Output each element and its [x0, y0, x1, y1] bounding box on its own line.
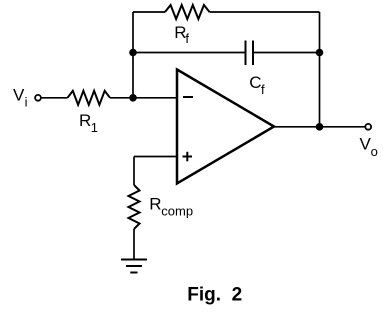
svg-text:i: i: [25, 94, 28, 109]
terminal Vi open circle: [35, 95, 41, 101]
wire Cf rail left segment: [133, 52, 246, 54]
node junction dot inverting input: [129, 94, 137, 102]
node junction dot left Cf: [129, 49, 137, 57]
svg-text:Fig. 2: Fig. 2: [187, 284, 242, 305]
resistor Rcomp: [129, 185, 140, 229]
wire top rail right segment: [210, 11, 320, 13]
capacitor Cf: [246, 41, 254, 66]
wire op-amp output: [274, 126, 365, 128]
svg-text:o: o: [371, 144, 378, 159]
wire top rail left segment: [133, 11, 165, 13]
wire right vertical rail (x=319.5, y 12..127): [319, 12, 321, 127]
op-amp plus sign: [183, 152, 193, 162]
svg-text:R: R: [149, 195, 161, 214]
node junction dot right Cf: [316, 49, 324, 57]
wire Cf rail right segment: [253, 52, 320, 54]
wire R1 to op-amp inverting input: [110, 97, 177, 99]
wire Rcomp to ground: [133, 229, 135, 260]
node junction dot output: [316, 123, 324, 131]
op-amp U1 triangle: [177, 70, 274, 184]
wire noninverting input: [134, 156, 177, 158]
svg-text:C: C: [249, 73, 261, 92]
resistor Rf: [165, 5, 210, 19]
svg-text:f: f: [261, 82, 265, 97]
wire Vi to R1: [42, 97, 68, 99]
terminal Vo open circle: [365, 124, 371, 130]
svg-text:f: f: [185, 31, 189, 46]
wire top-left vertical (x=133, y 12..98): [132, 12, 134, 98]
ground: [121, 260, 147, 273]
op-amp minus sign: [183, 96, 193, 98]
svg-text:V: V: [13, 85, 25, 104]
svg-text:R: R: [79, 111, 91, 130]
svg-text:comp: comp: [161, 204, 193, 219]
wire down to Rcomp: [133, 157, 135, 186]
svg-text:1: 1: [91, 120, 98, 135]
resistor R1: [68, 91, 111, 105]
